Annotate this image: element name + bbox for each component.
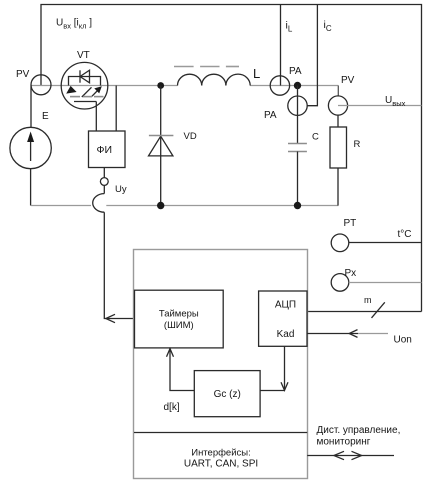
svg-text:Uy: Uy (115, 184, 127, 195)
wire PV2 drop (337, 86, 339, 97)
wire gate lead to FI (95, 102, 97, 132)
diode VD (149, 86, 173, 206)
source E (10, 127, 51, 168)
voltmeter PV (output) (328, 96, 347, 115)
wire bottom return rail (31, 205, 338, 207)
bus slash m (372, 302, 385, 318)
svg-text:АЦП: АЦП (275, 300, 296, 311)
svg-text:C: C (312, 132, 319, 143)
block ADC (259, 291, 307, 346)
svg-text:PV: PV (16, 69, 30, 80)
junction C bottom (294, 202, 301, 209)
node Uy terminal (103, 168, 105, 178)
wire main top power rail (31, 85, 338, 87)
wire Kad to Gc arrow (260, 346, 288, 390)
wire iC sense (307, 5, 317, 106)
svg-text:PA: PA (264, 110, 277, 121)
capacitor C (288, 144, 307, 152)
svg-text:PT: PT (344, 218, 357, 229)
block timers PWM (135, 290, 224, 348)
svg-text:Gc (z): Gc (z) (214, 389, 241, 400)
wire Uy control line with hop over rail (93, 185, 135, 322)
block Gc(z) controller (194, 371, 260, 417)
svg-text:Kad: Kad (277, 329, 295, 340)
wire R bottom (337, 168, 339, 206)
svg-text:Дист. управление,: Дист. управление, (317, 425, 401, 436)
ammeter PV (input) (31, 75, 51, 95)
divider interfaces section (134, 432, 307, 434)
wire iL sense (280, 5, 282, 86)
ammeter PA (iL) (270, 76, 289, 95)
svg-text:ФИ: ФИ (97, 144, 113, 156)
svg-text:t°C: t°C (398, 229, 412, 240)
sensor Px (331, 274, 349, 292)
resistor R (330, 127, 347, 168)
core dashed line (174, 66, 239, 68)
svg-text:E: E (42, 111, 49, 122)
wire Px output (349, 282, 422, 284)
wire Gc to timers arrow (167, 349, 195, 391)
svg-text:Интерфейсы:: Интерфейсы: (191, 448, 251, 459)
junction VD top (157, 82, 164, 89)
svg-text:PV: PV (341, 75, 355, 86)
svg-text:d[k]: d[k] (164, 402, 180, 413)
wire Uon reference input (307, 333, 358, 335)
wire source tap to FI (115, 86, 117, 132)
node Uvx label (56, 17, 92, 30)
block FI (pulse shaper) (89, 131, 126, 168)
svg-text:Uon: Uon (394, 334, 412, 345)
wire to R (337, 115, 339, 127)
ammeter PA (iC) (288, 96, 307, 115)
svg-text:(ШИМ): (ШИМ) (164, 320, 194, 331)
wire top sense rail (41, 5, 422, 312)
svg-text:Таймеры: Таймеры (159, 309, 199, 320)
wire Uvyh output (338, 105, 422, 107)
wire m bus to ADC (307, 311, 421, 313)
svg-text:R: R (354, 139, 361, 150)
svg-text:L: L (253, 66, 260, 81)
sensor PT (331, 234, 349, 252)
svg-text:PA: PA (289, 66, 302, 77)
svg-text:VT: VT (77, 50, 90, 61)
svg-text:VD: VD (184, 131, 197, 142)
wire C branch (297, 86, 299, 144)
svg-text:m: m (364, 295, 372, 305)
svg-text:мониторинг: мониторинг (317, 436, 371, 447)
inductor L (178, 74, 251, 85)
wire t°C (349, 242, 422, 244)
svg-text:Px: Px (345, 268, 357, 279)
wire remote control link (307, 451, 394, 459)
svg-text:UART, CAN, SPI: UART, CAN, SPI (184, 459, 258, 470)
junction main rail / C branch (294, 82, 301, 89)
wire left source rail (30, 86, 32, 206)
block microcontroller (134, 250, 308, 479)
junction VD bottom (157, 202, 164, 209)
